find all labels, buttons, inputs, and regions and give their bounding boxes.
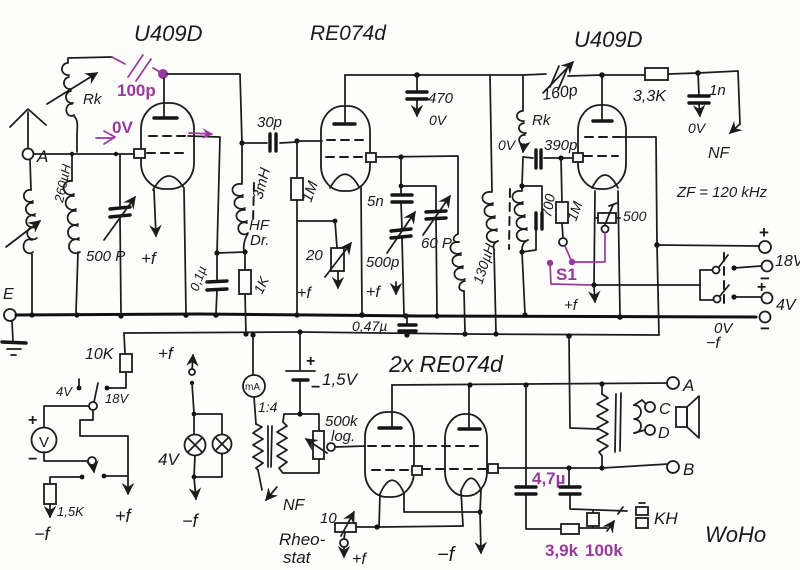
svg-text:+f: +f (297, 285, 312, 302)
svg-text:3mH: 3mH (249, 166, 274, 201)
svg-text:4V: 4V (56, 384, 73, 399)
svg-text:+: + (306, 353, 315, 370)
svg-text:500p: 500p (366, 254, 399, 271)
svg-text:500 P: 500 P (86, 248, 125, 265)
svg-text:3,9k: 3,9k (545, 541, 579, 560)
svg-text:3,3K: 3,3K (633, 88, 667, 105)
IF transformer core (dashed) (509, 189, 510, 249)
svg-text:−f: −f (437, 544, 457, 566)
tube4 cathode pinch (380, 480, 404, 494)
wire: B line (602, 464, 668, 468)
svg-text:160p: 160p (541, 82, 579, 104)
svg-text:100k: 100k (585, 541, 623, 560)
purple pointer to screen wire (189, 133, 212, 134)
svg-text:700: 700 (538, 193, 558, 219)
terminal + (18V) (759, 241, 771, 253)
resistor 1K (245, 252, 246, 333)
capacitor 700 (parallel to IF secondary) (522, 186, 542, 252)
tube RE074d #2 (output) envelope (445, 414, 487, 496)
svg-text:Dr.: Dr. (250, 232, 269, 249)
capacitor 1n (698, 73, 700, 116)
resistor 3,9k (561, 524, 579, 534)
lamp 4V right (194, 414, 222, 477)
wire: filament bottom link (404, 511, 480, 513)
resistor 1M (grid leak tube2) (296, 141, 298, 314)
tube RE074d envelope (321, 106, 370, 191)
wire: feedback tap from second bus to primary (569, 336, 598, 429)
node: 4V tap (77, 386, 82, 391)
node: tube1 anode node (purple dot) (158, 69, 168, 79)
tube U409D #2 envelope (578, 105, 626, 189)
transformer 1:4 core (268, 426, 272, 467)
wire: secondary bottom loop (282, 459, 319, 473)
svg-text:V: V (39, 434, 49, 451)
svg-text:2x RE074d: 2x RE074d (388, 351, 504, 377)
svg-text:1,5V: 1,5V (322, 370, 359, 389)
svg-text:B: B (683, 460, 694, 479)
transformer 1:4 primary (zigzag) (253, 424, 263, 470)
terminal C (645, 402, 655, 412)
switch S1 (purple) (559, 238, 567, 246)
svg-text:1n: 1n (709, 82, 726, 99)
tube5 anode (459, 427, 480, 430)
terminal A (667, 377, 679, 389)
capacitor 470 (416, 75, 418, 116)
battery 1,5V (299, 332, 301, 413)
svg-text:−f: −f (182, 511, 200, 531)
svg-text:C: C (659, 401, 671, 418)
node: 18V tap (105, 386, 110, 391)
node: lamp top (192, 412, 197, 417)
svg-text:A: A (682, 376, 694, 395)
wire: NF output with arrow (698, 71, 740, 124)
potentiometer 500 (595, 217, 620, 219)
tube3 cathode pinch (592, 175, 618, 188)
svg-text:60 P: 60 P (421, 235, 452, 252)
ground (12, 321, 13, 341)
tube3 anode (593, 119, 612, 122)
svg-text:−: − (311, 379, 320, 396)
node: 470 branch (414, 72, 420, 78)
wire: tube2 screen net (376, 156, 458, 234)
switch: voltmeter selector (89, 402, 97, 410)
inductor HF Dr. 3mH choke (241, 143, 243, 184)
node: battery minus node (297, 411, 302, 416)
svg-text:+f: +f (141, 249, 158, 268)
wire: to + terminal (657, 245, 758, 246)
wire: mA branch (252, 335, 254, 375)
capacitor 4,7µ (left) (516, 487, 536, 494)
wire: tube3 filament left lead (+f) (594, 191, 595, 302)
tube U409D #1 envelope (141, 103, 194, 189)
output transformer core (615, 393, 621, 452)
svg-text:1:4: 1:4 (258, 399, 278, 415)
tube1 anode (154, 116, 177, 119)
svg-text:470: 470 (428, 90, 454, 107)
svg-text:1K: 1K (250, 273, 272, 296)
resistor 3,3K (602, 73, 698, 75)
antenna symbol (10, 109, 46, 127)
wire: HT down to IF primary (490, 75, 492, 192)
svg-text:mA: mA (245, 382, 260, 393)
resistor Rk (third tube) (522, 75, 524, 111)
wire: tube4 filament leads (379, 494, 404, 527)
tube4 anode (379, 426, 401, 429)
wire: screen branch down (400, 157, 402, 195)
capacitor 100p (purple regen cap) (112, 57, 125, 64)
terminal minus (760, 312, 771, 323)
terminal D (645, 425, 655, 435)
inductor: IF transformer primary (482, 192, 498, 242)
jack KH contacts (607, 507, 623, 531)
wire: 1M to filament link (297, 220, 335, 222)
wire: output anode (A) line (392, 383, 668, 385)
svg-text:+: + (28, 412, 37, 429)
svg-text:+f: +f (352, 551, 367, 568)
node: tube2 grid node (294, 138, 299, 143)
svg-text:0,47µ: 0,47µ (352, 318, 387, 334)
node: screen/0,1µ junction (214, 250, 219, 255)
lamp 4V left (194, 414, 195, 477)
switch: battery selector upper (700, 255, 728, 270)
tube2 screen (dashed) + pin (326, 156, 366, 158)
svg-text:0V: 0V (688, 120, 707, 136)
jack KH (636, 507, 648, 515)
terminal 18V (762, 261, 773, 272)
tube1 grid 2 (dashed) (149, 135, 188, 137)
resistor 1,5K (44, 484, 56, 504)
node: tube3 grid node (558, 155, 563, 160)
node: grid wire junctions (70, 152, 74, 156)
wire: tube1 anode to HT (top wire) (167, 74, 242, 143)
wire: A line to 4,7µ branch (525, 385, 527, 486)
wire: grid net tube1 (A to grid) (34, 153, 135, 155)
svg-text:4V: 4V (776, 297, 797, 314)
terminal A (23, 149, 34, 160)
switch: battery selector lower (700, 285, 729, 300)
meter V (32, 428, 57, 453)
tube2 grid (dashed) (327, 139, 364, 141)
svg-text:NF: NF (283, 497, 306, 514)
inductor: IF transformer secondary (521, 186, 523, 191)
terminal E (4, 309, 16, 321)
wire: tube2 filament to ground bus (361, 187, 362, 313)
wire: secondary to C/D (634, 400, 646, 405)
wire: NF arrow from primary (258, 470, 277, 500)
svg-text:WoHo: WoHo (705, 522, 766, 547)
capacitor 160p (variable, feedback) (523, 74, 546, 75)
svg-text:18V: 18V (775, 253, 800, 270)
switch: lower (88, 457, 96, 465)
svg-text:E: E (3, 286, 14, 303)
wire: +f return (80, 410, 128, 494)
svg-text:+f: +f (564, 297, 579, 314)
svg-text:A: A (36, 147, 48, 166)
svg-text:260µH: 260µH (51, 162, 74, 204)
svg-text:−: − (760, 319, 770, 338)
svg-text:500: 500 (623, 208, 647, 224)
svg-text:100p: 100p (117, 81, 156, 100)
wire: tube1 screen drop (188, 136, 220, 253)
wire: S1 to battery switch (594, 284, 700, 286)
node: +18 junction (654, 242, 660, 248)
wire: tube3 filament right lead to bus (618, 191, 620, 316)
transformer 1:4 secondary (zigzag) (277, 422, 287, 472)
svg-text:0V: 0V (112, 118, 133, 137)
capacitor 60p (variable) (401, 186, 436, 210)
wire: selector to voltmeter (44, 406, 89, 428)
capacitor 500p (variable) (401, 202, 402, 229)
tube1 cathode pinch (153, 176, 184, 190)
svg-text:4V: 4V (158, 450, 180, 469)
svg-text:U409D: U409D (574, 27, 643, 52)
node: lamp bottom (192, 475, 197, 480)
svg-text:30p: 30p (257, 114, 282, 131)
svg-text:0V: 0V (429, 112, 448, 128)
svg-text:Rheo-: Rheo- (279, 530, 326, 549)
tube5 grids (dashed) (414, 445, 482, 447)
wire: main ground bus (16, 314, 756, 317)
wire: voltmeter to lower switch (44, 452, 87, 461)
svg-text:0V: 0V (498, 137, 517, 153)
wire: tube2 anode HT wire (345, 74, 523, 76)
node: 30p branch (239, 140, 244, 145)
node: tube3 anode node (599, 72, 605, 78)
svg-text:+f: +f (115, 506, 133, 526)
resistor 100k (592, 511, 594, 528)
svg-text:S1: S1 (556, 265, 577, 284)
speaker (676, 407, 687, 427)
svg-text:10K: 10K (85, 346, 115, 363)
svg-text:stat: stat (283, 548, 312, 567)
output transformer secondary (634, 405, 641, 433)
svg-text:−f: −f (706, 335, 721, 352)
tube4 grid (dashed) (368, 445, 412, 447)
tube5 cathode pinch (461, 478, 481, 491)
node: NF takeoff (695, 70, 701, 76)
node: second bus junctions (243, 331, 248, 336)
resistor 1M (tube3 grid leak) (561, 158, 563, 238)
tube1 grid 1 (dashed) + pin (147, 152, 186, 154)
svg-text:NF: NF (708, 145, 731, 162)
output transformer primary (zigzag) (601, 384, 603, 394)
svg-text:390p: 390p (544, 137, 577, 154)
wire: IF secondary to ground bus (522, 252, 525, 314)
svg-text:U409D: U409D (134, 21, 203, 46)
wire: +18 rail down to second bus (657, 245, 659, 335)
switch: lamp (189, 369, 195, 375)
svg-text:+f: +f (366, 284, 381, 301)
potentiometer 500k log (300, 414, 319, 431)
inductor: antenna coupling coil (variable) (30, 160, 31, 190)
wire: tube1 filament +f lead with arrow (154, 190, 156, 236)
svg-text:1,5K: 1,5K (57, 504, 85, 519)
terminal B (667, 461, 679, 473)
wire: 18V to switch (734, 266, 761, 268)
svg-text:D: D (658, 425, 670, 442)
svg-text:RE074d: RE074d (310, 22, 387, 45)
wire: tube1 filament to ground bus (184, 189, 186, 313)
wire: tube5 filament leads (461, 490, 481, 526)
wire: second (heater/+f) bus (124, 332, 659, 335)
wire: to 4V terminal (731, 294, 736, 299)
svg-text:5n: 5n (367, 193, 384, 210)
svg-text:−: − (28, 451, 37, 468)
svg-text:4,7µ: 4,7µ (532, 469, 565, 488)
wire: -f lead (480, 512, 481, 553)
wire: switch bracket (699, 270, 701, 300)
wire: grid line to B (498, 467, 602, 469)
tube2 anode (334, 122, 355, 125)
svg-text:−f: −f (34, 524, 52, 544)
tube RE074d #1 (output) envelope (365, 412, 414, 497)
svg-text:+f: +f (158, 344, 175, 363)
inductor 130µH (variable) (454, 234, 459, 242)
svg-text:Rk: Rk (83, 91, 103, 108)
tube2 cathode pinch (330, 174, 359, 188)
wire: tube3 screen to +18 rail (620, 137, 657, 244)
svg-text:log.: log. (331, 428, 355, 445)
svg-text:Rk: Rk (532, 112, 552, 129)
resistor Rk (variable, input stage) (68, 57, 112, 63)
node: main bus junctions (29, 312, 34, 317)
svg-text:+: + (759, 223, 769, 242)
svg-text:KH: KH (654, 509, 678, 528)
svg-text:18V: 18V (105, 391, 129, 406)
tube5 grid pin (488, 464, 498, 473)
wire: measure row (80, 475, 85, 480)
svg-text:20: 20 (305, 247, 323, 264)
tube3 grid2 (dashed) (585, 136, 620, 138)
tube3 grid1 (dashed) + pin (584, 155, 618, 157)
wire: battery to transformer secondary (283, 414, 300, 422)
tube4 screen (dashed) + pin (372, 469, 412, 471)
svg-text:ZF = 120 kHz: ZF = 120 kHz (676, 184, 768, 201)
meter mA (243, 375, 265, 397)
